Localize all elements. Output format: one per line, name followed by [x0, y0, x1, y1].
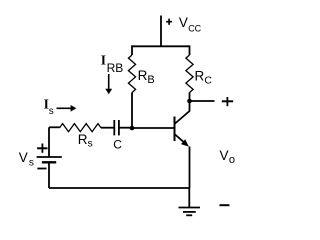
wire C to base node	[119, 127, 132, 129]
svg-text:R: R	[78, 132, 88, 147]
label Is	[44, 97, 54, 117]
svg-text:V: V	[179, 15, 188, 30]
wire RC bottom stub	[189, 93, 191, 102]
wire base lead	[132, 127, 175, 129]
label + source	[37, 144, 47, 153]
label RC	[195, 69, 213, 87]
label + output	[222, 97, 233, 106]
svg-text:s: s	[49, 106, 54, 117]
svg-text:R: R	[138, 68, 148, 83]
svg-text:s: s	[88, 137, 93, 149]
node collector junction	[187, 99, 192, 104]
resistor Rs	[60, 124, 101, 132]
label Vo	[220, 148, 236, 166]
resistor RC	[186, 55, 193, 93]
wire bottom	[49, 187, 189, 189]
svg-text:C: C	[113, 138, 122, 152]
label Vs	[19, 150, 34, 169]
svg-text:V: V	[19, 150, 28, 165]
wire emitter down	[189, 147, 191, 189]
wire Vcc stub	[160, 16, 162, 47]
label + Vcc	[166, 15, 201, 33]
ground	[179, 188, 201, 215]
node base junction	[130, 126, 135, 131]
svg-text:R: R	[195, 69, 205, 84]
capacitor C	[114, 120, 119, 135]
label - output	[220, 204, 230, 206]
transistor Q1	[175, 101, 190, 147]
wire output plus lead	[190, 100, 215, 102]
svg-text:B: B	[147, 74, 154, 86]
label IRB	[101, 53, 123, 75]
wire RC top stub	[189, 45, 191, 55]
label Rs	[78, 132, 93, 149]
svg-text:I: I	[101, 53, 106, 68]
svg-text:RB: RB	[107, 61, 124, 75]
wire top rail	[132, 45, 190, 47]
svg-text:C: C	[204, 75, 212, 87]
svg-text:V: V	[220, 148, 229, 163]
wire RB top stub	[131, 45, 133, 55]
wire source top lead	[49, 126, 60, 128]
label RB	[138, 68, 155, 86]
resistor RB	[128, 55, 135, 93]
wire Rs to C	[101, 127, 114, 129]
svg-text:s: s	[29, 158, 34, 169]
current arrow IRB	[105, 74, 112, 94]
label - source	[37, 168, 46, 170]
svg-text:CC: CC	[188, 23, 201, 33]
wire RB bottom stub	[131, 93, 133, 129]
svg-text:o: o	[229, 154, 235, 166]
current arrow Is	[57, 105, 77, 112]
source Vs battery	[37, 127, 62, 188]
